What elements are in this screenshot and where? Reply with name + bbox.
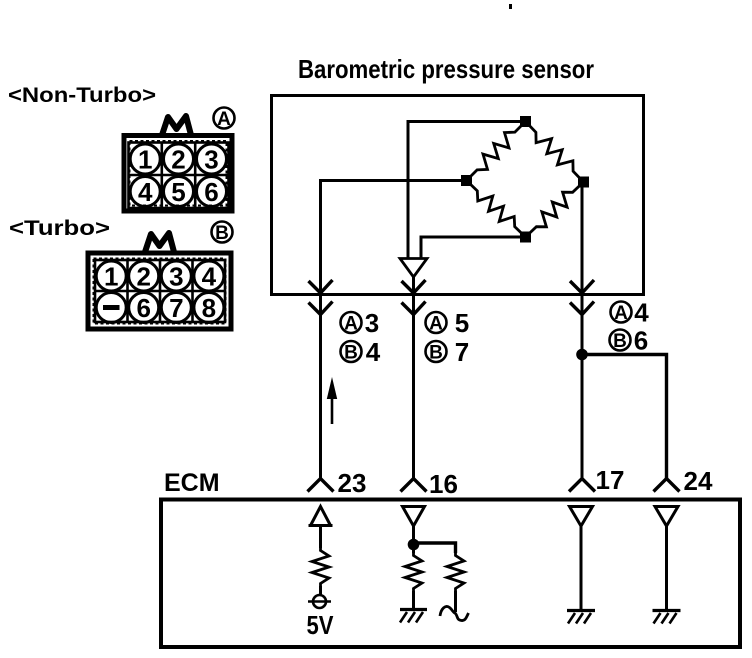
svg-text:7: 7 <box>455 337 469 367</box>
bridge resistor bottom-right <box>526 182 584 237</box>
connector chevron wire17 upper <box>570 280 594 293</box>
svg-text:B: B <box>215 223 229 244</box>
connector B pin 2 <box>129 261 159 292</box>
bridge node bottom <box>520 232 531 243</box>
connector A pin 6 <box>197 177 227 208</box>
svg-text:1: 1 <box>104 262 118 292</box>
svg-text:ECM: ECM <box>164 469 220 497</box>
ground pin24 <box>653 611 681 624</box>
connector B pin 4 <box>194 261 224 292</box>
ECM pin fork 17 <box>569 479 595 492</box>
bridge node top <box>520 116 531 127</box>
svg-text:6: 6 <box>136 293 150 323</box>
wire junction down <box>412 545 415 554</box>
svg-text:3: 3 <box>365 308 379 338</box>
wire pin17 to ground <box>580 526 583 610</box>
svg-text:8: 8 <box>202 293 216 323</box>
svg-text:24: 24 <box>684 466 713 496</box>
svg-text:7: 7 <box>169 293 183 323</box>
connector B pin 1 <box>96 261 126 292</box>
connector chevron wire23 upper <box>309 280 333 293</box>
connector A key (M notch) <box>162 116 191 135</box>
svg-text:1: 1 <box>138 145 152 175</box>
ECM pin fork 24 <box>654 479 680 492</box>
wire from top node to middle drop <box>408 122 526 259</box>
barometric pressure sensor box <box>272 96 644 295</box>
speck above title <box>509 4 512 9</box>
svg-text:4: 4 <box>366 337 381 367</box>
label B7 <box>426 337 470 367</box>
label A5 <box>426 308 470 338</box>
ECM output triangle (down) pin 17 <box>570 507 593 527</box>
ECM input triangle (down) pin 16 <box>403 507 425 527</box>
connector B pin 8 <box>194 293 224 324</box>
connector chevron wire23 lower <box>309 302 333 315</box>
connector A body <box>124 136 232 212</box>
ground pin17 <box>567 611 595 624</box>
svg-text:23: 23 <box>338 468 367 498</box>
bridge resistor top-left <box>467 122 526 181</box>
svg-text:5V: 5V <box>307 610 335 640</box>
connector chevron wire16 upper <box>402 280 426 293</box>
svg-text:4: 4 <box>634 298 649 328</box>
svg-text:2: 2 <box>136 262 150 292</box>
ECM box <box>161 500 740 648</box>
connector B key (M notch) <box>145 233 174 252</box>
connector A pin 3 <box>197 144 227 175</box>
junction node pin16 <box>408 539 420 551</box>
ECM output triangle (down) pin 24 <box>655 507 678 527</box>
connector A pin 5 <box>164 177 194 208</box>
connector A pin 4 <box>130 177 160 208</box>
sensor output arrow (hollow) <box>400 259 427 278</box>
wire triangle to resistor <box>319 526 322 549</box>
wire resistor to 5V node <box>319 586 322 595</box>
connector B body <box>88 253 231 329</box>
ECM pin fork 16 <box>401 479 427 492</box>
wire pin24 to ground <box>665 526 668 610</box>
wire from bottom node to middle drop <box>421 237 526 258</box>
bridge resistor top-right <box>526 122 584 183</box>
connector B pin 3 <box>161 261 191 292</box>
bridge node left <box>461 175 472 186</box>
resistor R(5V) <box>312 548 329 586</box>
svg-text:5: 5 <box>171 177 185 207</box>
wire middle drop to pin 16 <box>412 277 415 479</box>
svg-text:<Non-Turbo>: <Non-Turbo> <box>8 84 156 107</box>
label B4 <box>341 337 381 367</box>
svg-text:A: A <box>217 109 231 130</box>
connector chevron wire17 lower <box>570 302 594 315</box>
svg-text:A: A <box>344 314 358 335</box>
wire resistor to ground <box>412 591 415 609</box>
svg-text:A: A <box>429 314 443 335</box>
signal direction arrow on wire 23 <box>327 377 337 424</box>
ECM pin fork 23 <box>308 479 334 492</box>
svg-text:6: 6 <box>634 326 648 356</box>
bridge node right <box>578 177 589 188</box>
connector B pin 6 <box>129 293 159 324</box>
svg-text:2: 2 <box>171 145 185 175</box>
svg-text:3: 3 <box>204 145 218 175</box>
label A4 <box>611 298 650 328</box>
svg-text:B: B <box>429 343 443 364</box>
wire from left node to pin 23 <box>321 181 467 480</box>
wire junction to right branch <box>414 543 456 553</box>
ECM 5V pull-up: buffer triangle (up) <box>309 507 333 526</box>
svg-text:6: 6 <box>204 177 218 207</box>
svg-text:4: 4 <box>202 262 217 292</box>
connector B pin 7 <box>161 293 191 324</box>
svg-text:3: 3 <box>169 262 183 292</box>
label A3 <box>341 308 380 338</box>
svg-text:<Turbo>: <Turbo> <box>9 217 110 240</box>
connector chevron wire16 lower <box>402 302 426 315</box>
wire junction to pin 24 <box>582 355 667 480</box>
connector B pin blank (dash) <box>96 293 126 323</box>
junction node on wire 17 <box>576 349 588 361</box>
connector A pin 2 <box>164 144 194 175</box>
wire from right node to pin 17 <box>582 182 584 479</box>
svg-text:A: A <box>614 303 628 324</box>
ground pin16 <box>400 610 427 623</box>
svg-text:B: B <box>344 343 358 364</box>
wire triangle to junction <box>412 526 415 545</box>
circled A (connector A id) <box>214 108 235 131</box>
svg-text:16: 16 <box>429 469 458 499</box>
svg-text:B: B <box>613 331 627 352</box>
svg-text:17: 17 <box>596 465 625 495</box>
circled B (connector B id) <box>212 222 233 245</box>
bridge resistor bottom-left <box>467 181 526 238</box>
continuation hook symbol <box>440 606 469 620</box>
5V supply node circle <box>308 595 331 608</box>
connector A pin 1 <box>130 144 160 175</box>
resistor R16 right <box>447 553 464 591</box>
svg-text:4: 4 <box>138 177 153 207</box>
wire resistor to hook <box>454 591 457 612</box>
svg-text:5: 5 <box>455 308 469 338</box>
svg-text:Barometric pressure sensor: Barometric pressure sensor <box>298 54 594 84</box>
label B6 <box>610 326 649 356</box>
resistor R16 left <box>405 553 422 591</box>
